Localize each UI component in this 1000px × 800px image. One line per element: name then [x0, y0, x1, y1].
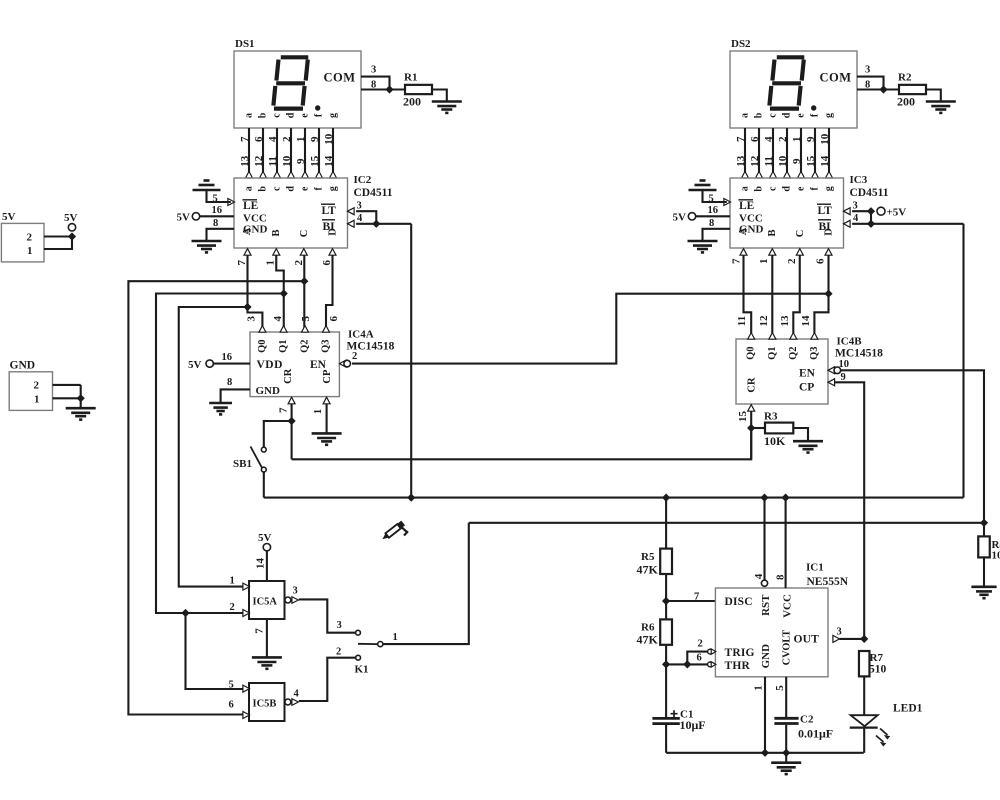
svg-text:DISC: DISC [725, 596, 753, 608]
svg-text:4: 4 [267, 136, 279, 142]
svg-text:2: 2 [336, 647, 341, 658]
svg-text:A: A [738, 227, 749, 235]
svg-text:10: 10 [839, 359, 850, 370]
svg-text:13: 13 [735, 155, 747, 167]
wire IC3 D (6) to IC4B Q3 (14) [814, 255, 828, 333]
wire IC2 LT pin 3 [356, 211, 376, 224]
wires display to decoder (a-g) [744, 128, 746, 172]
svg-text:9: 9 [791, 158, 803, 164]
wire IC2 B (1) to IC4A Q1 (4) [276, 255, 284, 332]
svg-text:3: 3 [245, 316, 257, 322]
trunk wire node C to IC5B pin 6 [128, 281, 304, 714]
gate IC5B [249, 683, 285, 721]
svg-text:14: 14 [819, 155, 831, 167]
svg-text:5V: 5V [64, 212, 78, 224]
svg-text:13: 13 [239, 155, 251, 167]
svg-text:8: 8 [213, 218, 218, 229]
svg-text:e: e [796, 186, 807, 191]
pin GND (1) of IC1 [764, 677, 766, 753]
svg-text:16: 16 [212, 205, 223, 216]
resistor R3 [751, 427, 765, 429]
svg-text:1: 1 [27, 245, 33, 257]
svg-text:IC3: IC3 [850, 174, 868, 186]
wire IC4A CR (7) [291, 404, 293, 460]
power 5V at VCC pin of IC3 [696, 215, 730, 217]
svg-text:b: b [754, 112, 765, 118]
svg-text:VCC: VCC [782, 594, 794, 618]
svg-text:d: d [782, 186, 793, 192]
svg-text:Q3: Q3 [321, 339, 332, 352]
ground at GND pin of IC2 [207, 229, 235, 241]
svg-text:Q0: Q0 [746, 346, 757, 359]
gate IC5A [249, 581, 285, 619]
svg-text:5: 5 [213, 193, 218, 204]
pin CVOLT (5) to C2 [785, 677, 787, 717]
ground at GND pin of IC4A [221, 389, 250, 402]
counter IC4B MC14518 [736, 339, 828, 404]
svg-text:3: 3 [853, 201, 858, 212]
wire DS1 COM pin 8 [361, 88, 405, 90]
svg-text:12: 12 [749, 155, 761, 167]
svg-text:a: a [244, 186, 255, 191]
svg-text:11: 11 [763, 156, 775, 166]
svg-text:1: 1 [265, 260, 277, 266]
svg-text:IC1: IC1 [806, 562, 824, 574]
power 5V at VDD pin of IC4A [213, 363, 250, 365]
svg-text:DS1: DS1 [235, 38, 255, 50]
switch K1 [356, 630, 361, 635]
svg-text:2: 2 [352, 351, 357, 362]
svg-text:COM: COM [820, 71, 852, 85]
switch SB1 [261, 447, 266, 452]
svg-text:e: e [796, 113, 807, 118]
svg-text:9: 9 [295, 158, 307, 164]
svg-text:DS2: DS2 [731, 38, 751, 50]
svg-text:8: 8 [227, 377, 232, 388]
resistor R4 [978, 536, 990, 557]
svg-text:47K: 47K [637, 633, 659, 647]
svg-text:BI: BI [819, 221, 832, 233]
svg-text:R7: R7 [870, 652, 884, 664]
LED LED1 [851, 715, 878, 726]
svg-text:CR: CR [746, 377, 757, 393]
svg-text:+5V: +5V [887, 207, 907, 219]
pin RST (4) with circle [763, 498, 765, 581]
wire OUT (3) [833, 635, 840, 642]
svg-text:IC5A: IC5A [253, 597, 278, 608]
svg-text:VDD: VDD [257, 359, 283, 371]
svg-text:7: 7 [694, 592, 699, 603]
svg-text:6: 6 [328, 316, 340, 322]
power 5V at connector [68, 224, 75, 231]
svg-text:CP: CP [799, 381, 814, 393]
wire IC3 A (7) to IC4B Q0 (11) [744, 255, 752, 333]
wire IC4B CP (9) to 555 OUT [835, 382, 865, 639]
svg-text:7: 7 [236, 260, 248, 266]
display DS1 (7-segment) [234, 51, 361, 128]
svg-text:5V: 5V [258, 532, 272, 544]
svg-text:6: 6 [697, 652, 702, 663]
wire rail to IC3 BI vertical [962, 224, 964, 498]
svg-text:Q2: Q2 [788, 346, 799, 359]
svg-text:NE555N: NE555N [807, 576, 849, 588]
svg-text:5: 5 [229, 680, 234, 691]
svg-text:14: 14 [254, 558, 266, 570]
display DS2 (7-segment) [730, 51, 857, 128]
svg-text:EN: EN [799, 367, 816, 379]
decoder IC3 CD4511 [730, 178, 844, 248]
svg-text:Q3: Q3 [809, 346, 820, 359]
ground at R2 [926, 102, 956, 113]
svg-text:2: 2 [786, 258, 798, 264]
svg-text:LT: LT [322, 205, 337, 217]
wires connector GND pins [53, 384, 81, 386]
svg-text:10K: 10K [764, 434, 786, 448]
svg-text:2: 2 [34, 380, 40, 392]
svg-text:47K: 47K [637, 563, 659, 577]
counter IC4A MC14518 [250, 332, 339, 397]
svg-text:C: C [299, 230, 310, 238]
wire R1 to ground [432, 90, 447, 102]
svg-text:d: d [286, 186, 297, 192]
svg-text:a: a [740, 186, 751, 191]
resistor R5 [665, 498, 667, 549]
svg-text:14: 14 [800, 315, 812, 327]
svg-text:4: 4 [357, 213, 363, 224]
svg-text:15: 15 [309, 155, 321, 167]
svg-text:3: 3 [357, 201, 362, 212]
svg-text:CVOLT: CVOLT [781, 630, 792, 666]
svg-text:5: 5 [709, 193, 714, 204]
svg-text:CD4511: CD4511 [354, 187, 393, 199]
svg-text:A: A [242, 227, 253, 235]
svg-text:COM: COM [324, 71, 356, 85]
bottom ground rail [666, 752, 864, 754]
wire K1 common (1) to net [383, 523, 469, 644]
wire IC4A EN (2) to carry node [352, 294, 829, 364]
svg-text:BI: BI [323, 221, 336, 233]
svg-text:4: 4 [763, 136, 775, 142]
svg-text:7: 7 [731, 258, 743, 264]
svg-text:6: 6 [321, 260, 333, 266]
svg-text:5: 5 [774, 685, 786, 691]
svg-text:2: 2 [698, 638, 703, 649]
wire IC4A CR to IC4B CR link [292, 428, 752, 459]
svg-text:4: 4 [272, 316, 284, 322]
resistor R7 [859, 651, 870, 676]
svg-text:11: 11 [267, 156, 279, 166]
svg-text:LE: LE [243, 200, 259, 212]
branch wire node B to IC5B pin 5 [186, 613, 244, 689]
ground at GND pin of IC3 [703, 229, 731, 241]
svg-text:EN: EN [310, 359, 327, 371]
net rail wire (BI RST VCC nets) [264, 497, 964, 499]
ground at bottom rail [785, 753, 787, 763]
svg-text:GND: GND [760, 644, 772, 669]
svg-text:g: g [328, 186, 339, 191]
svg-text:Q1: Q1 [767, 346, 778, 359]
svg-text:Q0: Q0 [257, 339, 268, 352]
resistor R6 [665, 601, 667, 619]
net wire K1 to R4 [469, 522, 984, 524]
svg-text:6: 6 [229, 700, 234, 711]
svg-text:200: 200 [897, 95, 915, 109]
capacitor C2 0.01uF [774, 717, 798, 720]
svg-text:K1: K1 [355, 664, 369, 676]
svg-text:11: 11 [736, 316, 748, 326]
svg-text:R2: R2 [898, 72, 912, 84]
svg-text:GND: GND [10, 360, 36, 372]
wire THR (6) [665, 663, 708, 665]
svg-text:g: g [824, 113, 835, 118]
svg-text:e: e [300, 186, 311, 191]
wire C2 to rail [785, 725, 787, 753]
svg-text:12: 12 [758, 315, 770, 327]
svg-text:4: 4 [753, 573, 765, 579]
wires display to decoder (a-g) [248, 128, 250, 172]
svg-text:IC4B: IC4B [837, 336, 863, 348]
svg-text:14: 14 [323, 155, 335, 167]
decimal point DS2 [811, 105, 816, 110]
svg-text:4: 4 [853, 213, 859, 224]
svg-text:1: 1 [230, 576, 235, 587]
wire IC2 A (7) to IC4A Q0 (3) [248, 255, 263, 332]
svg-text:8: 8 [865, 80, 870, 91]
svg-text:c: c [768, 186, 779, 191]
timer IC1 NE555N [715, 588, 828, 677]
wire DS2 COM pin 3 [857, 77, 884, 90]
svg-text:7: 7 [253, 628, 265, 634]
svg-text:RST: RST [760, 594, 772, 616]
svg-text:2: 2 [281, 136, 293, 142]
wire IC2 BI pin 4 to net rail [356, 223, 411, 225]
ground at connector [80, 398, 82, 408]
ground at R3 [793, 441, 823, 452]
svg-text:2: 2 [27, 232, 33, 244]
svg-text:MC14518: MC14518 [835, 348, 883, 360]
svg-text:LT: LT [818, 205, 833, 217]
svg-text:10K: 10K [992, 550, 1000, 562]
svg-text:2: 2 [777, 136, 789, 142]
resistor R1 [405, 85, 432, 94]
decoder IC2 CD4511 [234, 178, 348, 248]
connector P2 GND [9, 372, 52, 411]
wire DS1 COM pin 3 [361, 77, 390, 90]
svg-text:c: c [272, 186, 283, 191]
svg-text:a: a [244, 113, 255, 118]
svg-text:5: 5 [300, 316, 312, 322]
svg-text:R5: R5 [641, 551, 655, 563]
svg-text:200: 200 [403, 95, 421, 109]
wire IC2 BI vertical [410, 224, 412, 498]
wire TRIG (2) [687, 652, 707, 665]
wire IC3 B (1) to IC4B Q1 (12) [771, 255, 773, 333]
svg-text:B: B [271, 229, 282, 236]
trunk wire node B to IC5A pin 2 [156, 294, 284, 614]
svg-text:10: 10 [281, 155, 293, 167]
wire R5 to DISC node [665, 574, 667, 601]
wire DISC (7) [666, 600, 715, 602]
svg-text:10: 10 [323, 133, 335, 145]
ground at IC4A CP (1) [326, 404, 328, 433]
svg-text:7: 7 [735, 136, 747, 142]
svg-text:3: 3 [371, 65, 376, 76]
svg-text:1: 1 [791, 137, 803, 143]
svg-text:6: 6 [253, 136, 265, 142]
svg-text:g: g [328, 113, 339, 118]
svg-text:LE: LE [739, 200, 755, 212]
svg-text:e: e [300, 113, 311, 118]
svg-text:1: 1 [758, 259, 770, 265]
svg-text:16: 16 [708, 205, 719, 216]
svg-text:10: 10 [777, 155, 789, 167]
svg-text:CR: CR [283, 368, 294, 384]
svg-text:2: 2 [293, 260, 305, 266]
svg-text:d: d [782, 112, 793, 118]
svg-text:R1: R1 [404, 72, 417, 84]
svg-text:R3: R3 [764, 411, 778, 423]
wires connector 5V pins [44, 235, 72, 237]
svg-text:C: C [795, 230, 806, 238]
svg-text:C2: C2 [800, 714, 814, 726]
svg-text:TRIG: TRIG [725, 647, 755, 659]
svg-text:5V: 5V [188, 359, 202, 371]
wire R4 to ground [983, 557, 985, 586]
svg-text:4: 4 [294, 689, 300, 700]
svg-text:3: 3 [293, 586, 298, 597]
svg-text:5V: 5V [2, 211, 16, 223]
svg-text:6: 6 [749, 136, 761, 142]
svg-text:5V: 5V [673, 212, 687, 224]
wire IC3 LT pin 3 to +5V [852, 211, 871, 224]
wire R2 to ground [926, 90, 941, 102]
svg-text:CP: CP [322, 369, 333, 384]
svg-text:CD4511: CD4511 [850, 187, 889, 199]
svg-text:0.01μF: 0.01μF [798, 726, 833, 740]
svg-text:6: 6 [815, 258, 827, 264]
svg-text:10μF: 10μF [680, 718, 706, 732]
power +5V at IC3 LT/BI [877, 207, 885, 215]
wire R7 to LED1 [863, 676, 865, 715]
wire LED1 to rail [863, 728, 865, 753]
svg-text:510: 510 [869, 664, 887, 676]
svg-text:c: c [272, 113, 283, 118]
svg-text:1: 1 [295, 137, 307, 143]
svg-text:Q1: Q1 [278, 339, 289, 352]
svg-text:3: 3 [337, 620, 342, 631]
inverted ground at LE pin of IC2 [207, 190, 231, 202]
wire R3 to ground [793, 428, 808, 441]
svg-text:8: 8 [371, 80, 376, 91]
svg-text:3: 3 [837, 627, 842, 638]
svg-text:LED1: LED1 [893, 703, 923, 715]
ground at R4 [971, 587, 996, 598]
wire IC2 C (2) to IC4A Q2 (5) [303, 255, 305, 332]
power 5V at VCC pin of IC2 [200, 215, 234, 217]
svg-text:16: 16 [222, 352, 233, 363]
svg-text:SB1: SB1 [233, 458, 252, 470]
svg-text:12: 12 [253, 155, 265, 167]
svg-text:3: 3 [865, 65, 870, 76]
svg-text:IC2: IC2 [354, 174, 372, 186]
wire IC3 C (2) to IC4B Q2 (13) [793, 255, 799, 333]
wire IC5B out (4) to K1 contact 2 [299, 658, 356, 701]
svg-text:1: 1 [34, 394, 40, 406]
svg-text:b: b [258, 186, 269, 192]
capacitor C1 10uF polarized [665, 664, 667, 717]
svg-text:15: 15 [737, 411, 749, 423]
svg-text:7: 7 [239, 136, 251, 142]
wire CR to switch SB1 [264, 421, 292, 447]
svg-text:1: 1 [393, 632, 398, 643]
svg-text:Q2: Q2 [300, 339, 311, 352]
svg-text:a: a [740, 113, 751, 118]
wire SB1 to net rail [263, 472, 265, 498]
trunk wire node A to IC5A pin 1 [179, 307, 248, 587]
pencil cursor icon [381, 521, 408, 542]
svg-text:15: 15 [805, 155, 817, 167]
svg-text:9: 9 [309, 136, 321, 142]
svg-text:10: 10 [819, 133, 831, 145]
svg-text:8: 8 [709, 218, 714, 229]
svg-text:b: b [754, 186, 765, 192]
svg-text:IC4A: IC4A [348, 329, 374, 341]
wire R6 to THR node [665, 645, 667, 665]
svg-text:8: 8 [774, 574, 786, 580]
ground at IC5A pin 7 [266, 619, 268, 657]
wire IC3 BI pin 4 to vertical [852, 223, 963, 225]
wire IC4B EN (10) to R4 node [841, 370, 984, 536]
pin VCC (8) [785, 498, 787, 588]
svg-text:5V: 5V [177, 212, 191, 224]
svg-text:9: 9 [805, 136, 817, 142]
wire DS2 COM pin 8 [857, 88, 899, 90]
svg-text:7: 7 [277, 407, 289, 413]
inverted ground at LE pin of IC3 [703, 190, 727, 202]
svg-text:1: 1 [312, 409, 324, 415]
svg-text:IC5B: IC5B [253, 699, 277, 710]
svg-text:d: d [286, 112, 297, 118]
wire C1 to bottom rail [665, 725, 667, 753]
wire IC4B CR (15) [750, 411, 752, 459]
svg-text:13: 13 [779, 315, 791, 327]
resistor R2 [899, 85, 926, 94]
svg-text:GND: GND [256, 385, 281, 397]
svg-text:g: g [824, 186, 835, 191]
ground at R1 [432, 102, 462, 113]
svg-text:2: 2 [230, 602, 235, 613]
wire IC2 D (6) to IC4A Q3 (6) [326, 255, 333, 332]
svg-text:b: b [258, 112, 269, 118]
decimal point DS1 [315, 105, 320, 110]
svg-text:OUT: OUT [794, 633, 820, 645]
wire IC5A out (3) to K1 contact 3 [299, 599, 356, 632]
svg-text:THR: THR [725, 660, 751, 672]
power 5V at IC5A pin 14 [266, 551, 268, 581]
svg-text:B: B [767, 229, 778, 236]
svg-text:1: 1 [752, 685, 764, 691]
connector P1 5V [1, 223, 44, 262]
svg-text:c: c [768, 113, 779, 118]
